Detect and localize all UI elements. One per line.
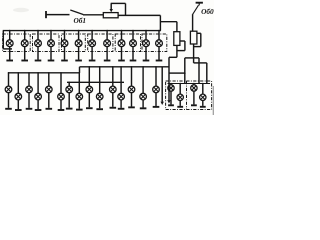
svg-text:Об1: Об1 [74,16,87,25]
svg-text:Об0: Об0 [201,7,214,16]
